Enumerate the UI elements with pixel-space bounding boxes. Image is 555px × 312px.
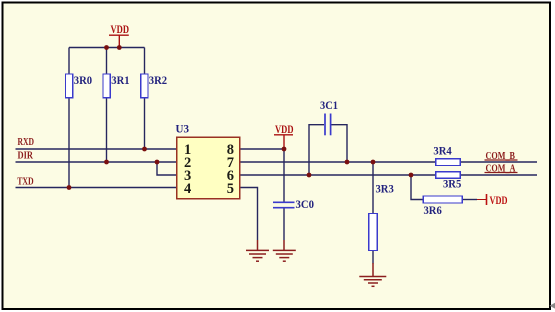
resistor R3 body xyxy=(369,214,377,251)
wire pin6 line left of 3R5 xyxy=(240,174,436,176)
wire red segment 3R6 to VDD port xyxy=(477,199,487,201)
node junction dot 3R2/RXD xyxy=(142,147,147,152)
resistor R0 body xyxy=(65,74,72,98)
svg-text:3R4: 3R4 xyxy=(433,144,451,158)
node junction dot DIR/pin3 xyxy=(155,160,160,165)
capacitor C0 plates xyxy=(273,202,295,207)
svg-text:3R2: 3R2 xyxy=(149,73,167,87)
node junction dot 3C1/pin6 xyxy=(307,173,312,178)
ground under 3R3 xyxy=(359,263,386,286)
wire pin6 line right of 3R5 to COM_A xyxy=(460,174,537,176)
wire VDD node down to 3C0 xyxy=(283,149,285,202)
wire 3R3 top leg xyxy=(372,162,374,214)
wire DIR horizontal xyxy=(16,161,177,163)
svg-text:3R1: 3R1 xyxy=(111,73,129,87)
resistor R6 body xyxy=(423,196,462,203)
wire pin5 L-shape down xyxy=(240,188,258,241)
svg-text:RXD: RXD xyxy=(18,137,35,148)
wire pin8 to VDD node xyxy=(240,148,285,150)
wire 3R1 bottom leg xyxy=(106,98,108,163)
wire pin7 line right of 3R4 to COM_B xyxy=(460,161,537,163)
wire RXD horizontal xyxy=(16,148,177,150)
svg-text:U3: U3 xyxy=(176,122,190,136)
svg-text:VDD: VDD xyxy=(111,22,130,36)
svg-text:3R5: 3R5 xyxy=(443,177,461,191)
wire 3R0 top leg xyxy=(68,48,70,75)
svg-text:TXD: TXD xyxy=(17,177,34,188)
node VDD power port right of 3R6 xyxy=(487,194,508,207)
wire 3R0 bottom leg xyxy=(68,98,70,188)
svg-text:3C1: 3C1 xyxy=(320,98,338,112)
node COM_A underline xyxy=(485,172,518,174)
node junction dot 3R6/pin6 xyxy=(409,173,414,178)
svg-text:VDD: VDD xyxy=(275,122,294,136)
wire TXD horizontal xyxy=(16,187,177,189)
wire 3R6 right lead xyxy=(462,199,477,201)
cursor artifact bottom right xyxy=(550,303,555,309)
capacitor C1 plates xyxy=(325,114,331,136)
wire 3C0 bottom leg xyxy=(283,208,285,240)
wire 3C1 left lead xyxy=(309,125,324,175)
node junction dot VDD/pin8 xyxy=(282,147,287,152)
svg-text:DIR: DIR xyxy=(18,151,34,162)
node junction dot 3R1 top xyxy=(104,45,109,50)
node VDD power port above pin8 xyxy=(274,122,294,149)
resistor R5 body xyxy=(436,172,460,179)
ground under 3C0 xyxy=(273,240,296,261)
resistor R2 body xyxy=(141,74,148,98)
node VDD power port top xyxy=(109,22,129,48)
node junction dot 3R3/pin7 xyxy=(371,160,376,165)
node COM_B underline xyxy=(485,159,518,161)
svg-text:VDD: VDD xyxy=(490,195,508,207)
svg-text:4: 4 xyxy=(184,181,191,197)
node junction dot VDD top xyxy=(117,45,122,50)
svg-text:3C0: 3C0 xyxy=(296,197,315,211)
resistor R4 body xyxy=(436,159,460,166)
resistor R1 body xyxy=(103,74,110,98)
svg-text:3R6: 3R6 xyxy=(424,203,442,217)
wire 3R1 top leg xyxy=(106,48,108,75)
svg-text:3R0: 3R0 xyxy=(74,73,92,87)
svg-text:3R3: 3R3 xyxy=(376,182,394,196)
wire 3R3 bottom leg xyxy=(372,251,374,264)
op-amp U3 IC box xyxy=(177,137,240,199)
wire pin7 line left of 3R4 xyxy=(240,161,436,163)
wire 3R2 top leg xyxy=(144,48,146,75)
node junction dot 3C1/pin7 xyxy=(345,160,350,165)
node junction dot 3R1/DIR xyxy=(104,160,109,165)
node junction dot 3R0/TXD xyxy=(67,185,72,190)
wire branch to 3R6 xyxy=(411,175,423,200)
ground under pin5 xyxy=(246,240,269,261)
wire 3C1 right lead xyxy=(331,125,347,162)
wire DIR to pin3 L-shape xyxy=(157,162,177,175)
wire 3R2 bottom leg xyxy=(144,98,146,150)
wire VDD top bus xyxy=(69,47,145,49)
svg-text:5: 5 xyxy=(227,181,234,197)
